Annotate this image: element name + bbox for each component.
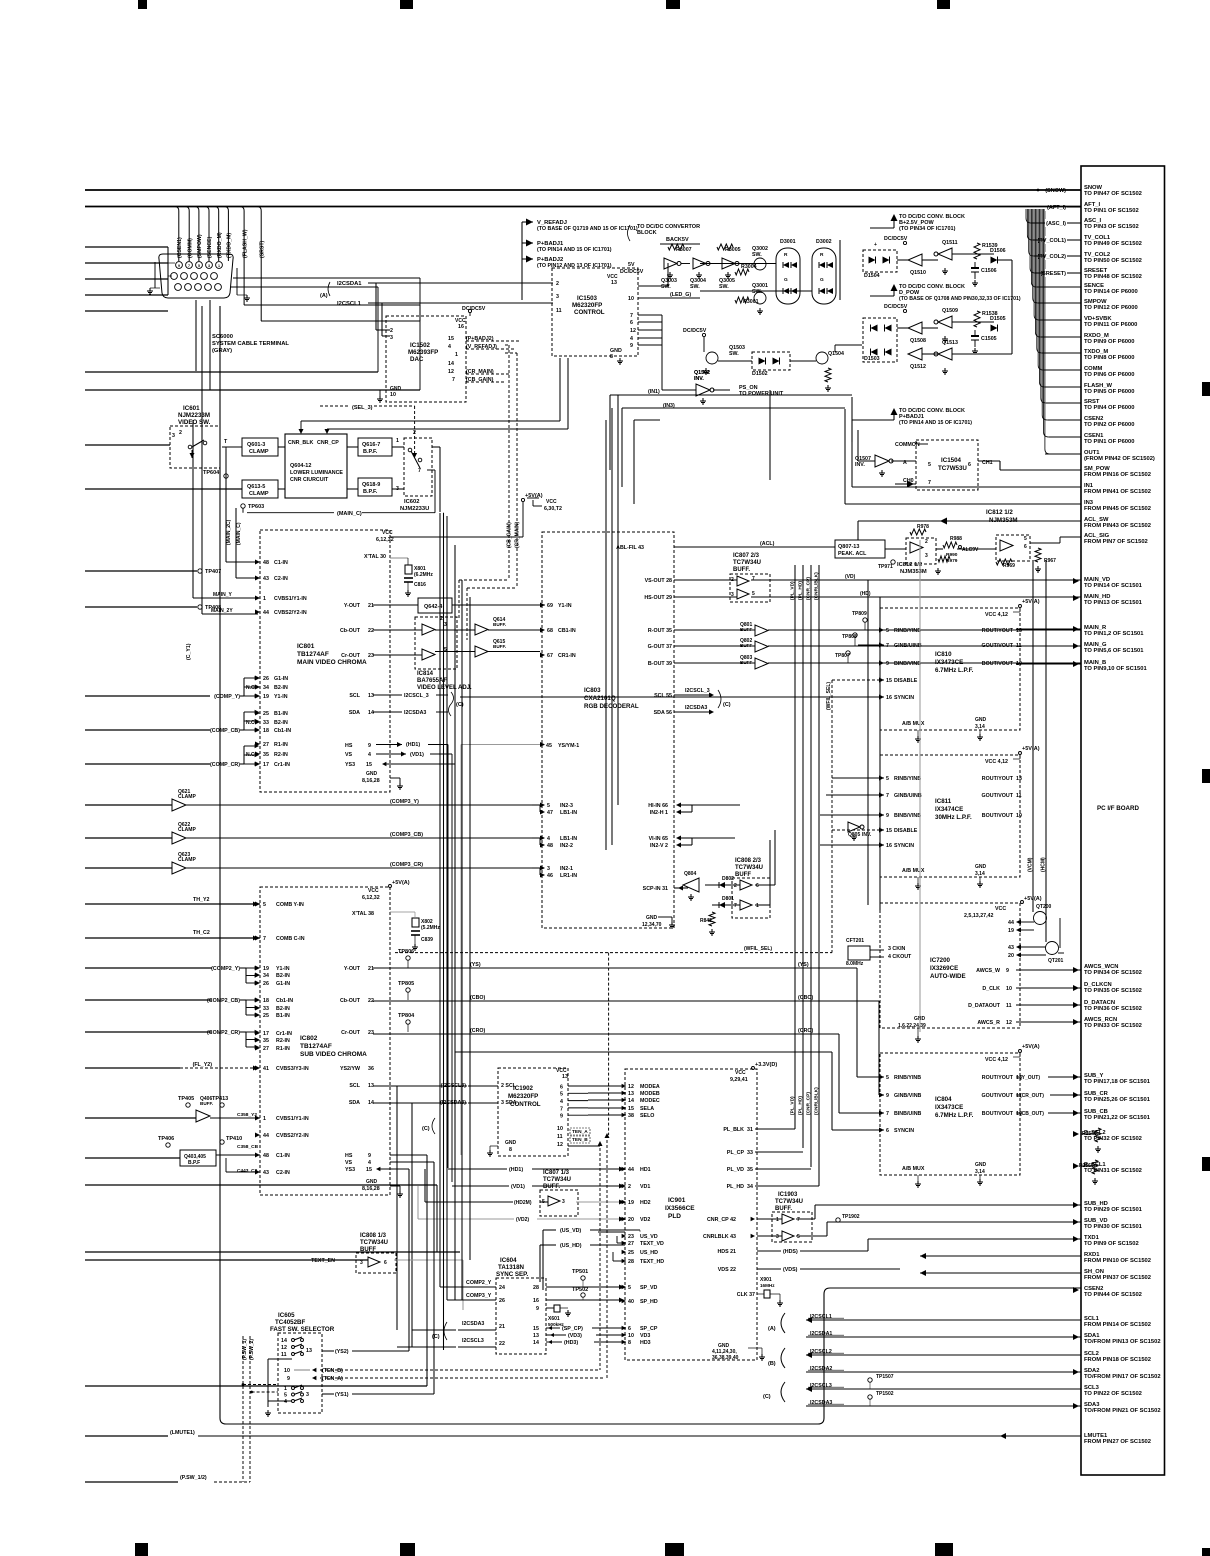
svg-text:7: 7: [418, 468, 421, 474]
svg-text:+5V(A): +5V(A): [392, 880, 410, 886]
svg-text:(US_HD): (US_HD): [560, 1243, 582, 1249]
svg-text:5: 5: [797, 1234, 800, 1240]
svg-text:IC605: IC605: [278, 1312, 295, 1319]
svg-text:HD2: HD2: [640, 1200, 651, 1206]
svg-text:TP1902: TP1902: [842, 1214, 860, 1220]
svg-text:(FL_Y2): (FL_Y2): [193, 1062, 213, 1068]
svg-text:16: 16: [886, 843, 892, 849]
svg-text:B.P.F.: B.P.F.: [363, 489, 378, 495]
svg-text:7: 7: [630, 313, 633, 319]
svg-text:3: 3: [172, 433, 175, 439]
svg-text:4 CKOUT: 4 CKOUT: [888, 954, 912, 960]
svg-text:7: 7: [752, 576, 755, 582]
svg-text:(C): (C): [422, 1126, 430, 1132]
svg-text:1: 1: [263, 1116, 266, 1122]
svg-text:5: 5: [886, 776, 889, 782]
svg-text:PL_BLK: PL_BLK: [723, 1127, 744, 1133]
svg-text:17: 17: [263, 762, 269, 768]
svg-text:I2CSDA3: I2CSDA3: [810, 1400, 832, 1406]
svg-text:SELA: SELA: [640, 1106, 654, 1112]
svg-text:(TV_COL1): (TV_COL1): [1038, 238, 1067, 244]
svg-text:IC1903: IC1903: [778, 1192, 798, 1198]
svg-text:3: 3: [562, 1199, 565, 1205]
svg-text:VCC 4,12: VCC 4,12: [985, 759, 1008, 765]
svg-text:(HD3): (HD3): [564, 1340, 578, 1346]
svg-text:HS: HS: [345, 743, 353, 749]
svg-text:PEAK. ACL: PEAK. ACL: [838, 551, 867, 557]
svg-text:R: R: [784, 252, 788, 258]
svg-text:(ACL): (ACL): [760, 541, 775, 547]
svg-text:BOUT/VOUT: BOUT/VOUT: [982, 661, 1014, 667]
svg-text:NJM2233M: NJM2233M: [178, 412, 210, 419]
svg-text:M62393FP: M62393FP: [408, 349, 438, 356]
svg-text:13: 13: [628, 1091, 634, 1097]
svg-text:Cb1-IN: Cb1-IN: [276, 998, 293, 1004]
svg-text:4: 4: [560, 1099, 563, 1105]
svg-text:IC807 1/3: IC807 1/3: [543, 1170, 570, 1176]
svg-text:Cr1-IN: Cr1-IN: [276, 1031, 292, 1037]
svg-text:TP410: TP410: [226, 1136, 242, 1142]
svg-text:VS-OUT 28: VS-OUT 28: [645, 578, 672, 584]
svg-text:AUTO-WIDE: AUTO-WIDE: [930, 973, 966, 980]
svg-text:8: 8: [610, 354, 613, 360]
svg-text:TC7W34U: TC7W34U: [735, 865, 763, 871]
svg-text:SELO: SELO: [640, 1113, 654, 1119]
svg-text:1: 1: [218, 264, 220, 268]
svg-text:TEN_A: TEN_A: [572, 1129, 588, 1135]
svg-text:CLK 37: CLK 37: [737, 1292, 755, 1298]
svg-text:GINB/UINB: GINB/UINB: [894, 793, 922, 799]
svg-text:1,6,22,24,39: 1,6,22,24,39: [898, 1023, 926, 1029]
svg-text:N.C: N.C: [246, 685, 255, 691]
svg-text:20: 20: [628, 1217, 634, 1223]
svg-text:6: 6: [628, 1326, 631, 1332]
svg-text:(5.2MHz: (5.2MHz: [421, 925, 440, 931]
svg-text:6,30,T2: 6,30,T2: [544, 506, 562, 512]
svg-text:DC/DC5V: DC/DC5V: [884, 304, 908, 310]
svg-text:FROM PIN27 OF SC1502: FROM PIN27 OF SC1502: [1084, 1439, 1151, 1445]
svg-text:LB1-IN: LB1-IN: [560, 836, 577, 842]
svg-text:15: 15: [366, 762, 372, 768]
svg-text:10: 10: [1016, 813, 1022, 819]
svg-text:(COMP2_Y): (COMP2_Y): [211, 966, 240, 972]
svg-text:33: 33: [263, 720, 269, 726]
svg-text:6.7MHz L.P.F.: 6.7MHz L.P.F.: [935, 667, 974, 674]
svg-text:(VD3): (VD3): [568, 1333, 582, 1339]
svg-text:3: 3: [547, 866, 550, 872]
svg-text:43: 43: [263, 576, 269, 582]
svg-text:C443_C2: C443_C2: [237, 1168, 258, 1174]
svg-text:21: 21: [368, 603, 374, 609]
svg-text:GND: GND: [975, 864, 987, 870]
svg-text:IC901: IC901: [668, 1197, 686, 1204]
svg-text:(VD): (VD): [845, 574, 856, 580]
svg-text:TO PIN34 OF SC1502: TO PIN34 OF SC1502: [1084, 970, 1142, 976]
svg-text:A/B MUX: A/B MUX: [902, 868, 925, 874]
svg-text:GND: GND: [975, 1162, 987, 1168]
svg-text:IC812 1/2: IC812 1/2: [897, 562, 922, 568]
svg-text:15: 15: [366, 1167, 372, 1173]
svg-text:Q1510: Q1510: [910, 270, 926, 276]
svg-text:BLOCK: BLOCK: [637, 230, 657, 236]
svg-text:C2-IN: C2-IN: [276, 1170, 290, 1176]
svg-text:IN2-V 2: IN2-V 2: [650, 843, 668, 849]
svg-text:15: 15: [448, 336, 454, 342]
svg-text:Q1509: Q1509: [942, 308, 958, 314]
svg-text:6: 6: [384, 1260, 387, 1266]
svg-text:3,14: 3,14: [975, 1169, 985, 1175]
svg-text:(COMP3_CB): (COMP3_CB): [390, 832, 423, 838]
svg-text:NJM2233U: NJM2233U: [400, 506, 429, 512]
svg-text:Q804: Q804: [684, 871, 696, 877]
svg-text:6: 6: [756, 883, 759, 889]
svg-text:4: 4: [368, 752, 371, 758]
svg-text:9: 9: [560, 1114, 563, 1120]
svg-text:TH_C2: TH_C2: [193, 930, 210, 936]
svg-text:18: 18: [263, 998, 269, 1004]
svg-text:(CRO): (CRO): [470, 1028, 486, 1034]
svg-text:(CB_GAIN): (CB_GAIN): [466, 377, 494, 383]
svg-text:I2CSCL_3: I2CSCL_3: [685, 688, 710, 694]
svg-text:21: 21: [368, 966, 374, 972]
svg-text:5V: 5V: [628, 262, 635, 268]
svg-text:9: 9: [886, 661, 889, 667]
svg-text:(A): (A): [768, 1326, 776, 1332]
svg-text:(TO PIN14 AND 15 OF IC1701): (TO PIN14 AND 15 OF IC1701): [537, 247, 612, 253]
svg-text:(COMP2_CB): (COMP2_CB): [207, 998, 240, 1004]
svg-text:TO PIN3 OF SC1502: TO PIN3 OF SC1502: [1084, 224, 1139, 230]
svg-text:D_DATAOUT: D_DATAOUT: [968, 1003, 1001, 1009]
svg-text:CVBS1/Y1-IN: CVBS1/Y1-IN: [274, 596, 307, 602]
svg-text:IN2-1: IN2-1: [560, 866, 573, 872]
svg-text:GINB/VINB: GINB/VINB: [894, 1093, 922, 1099]
svg-text:RGB DECODERAL: RGB DECODERAL: [584, 703, 639, 710]
svg-text:(GRAY): (GRAY): [212, 348, 232, 354]
svg-text:40: 40: [628, 1299, 634, 1305]
svg-text:5: 5: [547, 803, 550, 809]
svg-text:DC/DC5V: DC/DC5V: [683, 328, 707, 334]
svg-text:R: R: [820, 252, 824, 258]
svg-text:TO PIN17,18 OF SC1501: TO PIN17,18 OF SC1501: [1084, 1079, 1151, 1085]
svg-text:7: 7: [886, 1111, 889, 1117]
svg-text:Q616-7: Q616-7: [362, 442, 380, 448]
svg-text:IC807 2/3: IC807 2/3: [733, 553, 760, 559]
svg-text:BUFF.: BUFF.: [493, 644, 506, 649]
svg-text:Q604-12: Q604-12: [290, 463, 311, 469]
svg-text:R2-IN: R2-IN: [276, 1038, 290, 1044]
svg-text:CLAMP: CLAMP: [249, 491, 269, 497]
svg-text:3: 3: [556, 294, 559, 300]
svg-text:26: 26: [263, 981, 269, 987]
svg-text:TP501: TP501: [572, 1269, 588, 1275]
svg-text:25: 25: [263, 1013, 269, 1019]
svg-text:R1-IN: R1-IN: [274, 742, 288, 748]
svg-text:(LMUTE1): (LMUTE1): [170, 1430, 195, 1436]
svg-text:12,34,70: 12,34,70: [642, 922, 662, 928]
svg-text:2: 2: [734, 883, 737, 889]
svg-text:INV.: INV.: [862, 832, 872, 838]
svg-text:D1504: D1504: [864, 273, 880, 279]
svg-text:TP971: TP971: [878, 564, 893, 570]
svg-text:LR1-IN: LR1-IN: [560, 873, 577, 879]
svg-text:TO PIN12 OF P6000: TO PIN12 OF P6000: [1084, 305, 1138, 311]
svg-text:G: G: [784, 277, 788, 283]
svg-text:(LED_G): (LED_G): [670, 292, 691, 298]
svg-text:(PL_HD): (PL_HD): [798, 1096, 804, 1115]
svg-text:GND: GND: [975, 717, 987, 723]
svg-text:19: 19: [628, 1200, 634, 1206]
svg-text:12: 12: [628, 1084, 634, 1090]
svg-text:(YS): (YS): [470, 962, 481, 968]
svg-text:(COMP3_CR): (COMP3_CR): [390, 862, 423, 868]
svg-text:(CB_GAIN): (CB_GAIN): [507, 522, 513, 548]
svg-text:Q1511: Q1511: [942, 240, 958, 246]
svg-text:TO PIN44 OF SC1502: TO PIN44 OF SC1502: [1084, 1292, 1142, 1298]
svg-text:TO/FROM PIN13 OF SC1502: TO/FROM PIN13 OF SC1502: [1084, 1339, 1161, 1345]
svg-text:SUB VIDEO CHROMA: SUB VIDEO CHROMA: [300, 1051, 367, 1058]
svg-text:M62320FP: M62320FP: [508, 1093, 538, 1100]
svg-text:CVBS1/Y1-IN: CVBS1/Y1-IN: [276, 1116, 309, 1122]
svg-text:(C): (C): [456, 702, 464, 708]
svg-text:FROM PIN43 OF SC1502: FROM PIN43 OF SC1502: [1084, 523, 1151, 529]
svg-text:G: G: [820, 277, 824, 283]
svg-text:+: +: [874, 242, 877, 248]
svg-text:(C_Y1): (C_Y1): [186, 643, 192, 660]
svg-text:C1506: C1506: [981, 268, 997, 274]
svg-text:13: 13: [562, 1074, 568, 1080]
svg-text:TC7W34U: TC7W34U: [360, 1240, 388, 1246]
svg-text:(CSEN1): (CSEN1): [177, 237, 183, 258]
svg-text:19: 19: [263, 966, 269, 972]
svg-text:SYSTEM CABLE TERMINAL: SYSTEM CABLE TERMINAL: [212, 341, 289, 347]
svg-text:GOUT/VOUT: GOUT/VOUT: [982, 1093, 1014, 1099]
svg-text:14: 14: [368, 710, 374, 716]
svg-text:TP1507: TP1507: [876, 1374, 894, 1380]
svg-text:M62320FP: M62320FP: [572, 302, 602, 309]
svg-text:6: 6: [886, 1128, 889, 1134]
svg-text:Cb-OUT: Cb-OUT: [340, 628, 361, 634]
svg-text:IX3566CE: IX3566CE: [665, 1205, 695, 1212]
svg-text:(SRST): (SRST): [259, 240, 265, 258]
svg-text:RINB/YINB: RINB/YINB: [894, 628, 921, 634]
svg-text:TO PIN21,22 OF SC1501: TO PIN21,22 OF SC1501: [1084, 1115, 1151, 1121]
svg-text:17: 17: [263, 1031, 269, 1037]
svg-text:TP405: TP405: [178, 1096, 194, 1102]
svg-text:22: 22: [499, 1341, 505, 1347]
svg-text:TP407: TP407: [205, 569, 221, 575]
svg-text:9: 9: [630, 343, 633, 349]
svg-text:MAIN_2Y: MAIN_2Y: [211, 608, 233, 614]
svg-text:YS/YM-1: YS/YM-1: [558, 743, 579, 749]
svg-text:6.7MHz L.P.F.: 6.7MHz L.P.F.: [935, 1112, 974, 1119]
svg-text:4: 4: [547, 836, 550, 842]
svg-text:CONTROL: CONTROL: [574, 309, 605, 316]
svg-text:TO PIN4 OF P6000: TO PIN4 OF P6000: [1084, 405, 1134, 411]
svg-text:22: 22: [368, 628, 374, 634]
svg-text:TC7W34U: TC7W34U: [775, 1199, 803, 1205]
svg-text:28: 28: [628, 1259, 634, 1265]
svg-text:TO PIN8 OF P6000: TO PIN8 OF P6000: [1084, 355, 1134, 361]
svg-text:CLAMP: CLAMP: [178, 827, 196, 833]
svg-text:CNRLBLK 43: CNRLBLK 43: [703, 1234, 736, 1240]
svg-text:2,5,13,27,42: 2,5,13,27,42: [964, 913, 994, 919]
svg-text:13: 13: [611, 280, 617, 286]
svg-text:10: 10: [628, 296, 634, 302]
svg-text:D1505: D1505: [990, 316, 1006, 322]
svg-text:(CR_MAIN): (CR_MAIN): [466, 369, 494, 375]
svg-text:IX3473CE: IX3473CE: [935, 659, 963, 666]
svg-text:10: 10: [557, 1126, 563, 1132]
svg-text:(C): (C): [432, 1334, 440, 1340]
svg-text:TEXT_EN: TEXT_EN: [311, 1258, 335, 1264]
svg-text:(PL_VD): (PL_VD): [790, 581, 796, 600]
svg-text:TO PIN35 OF SC1502: TO PIN35 OF SC1502: [1084, 988, 1142, 994]
svg-text:20: 20: [1008, 953, 1014, 959]
svg-text:(SENCE): (SENCE): [207, 236, 213, 258]
svg-text:IC602: IC602: [404, 499, 419, 505]
svg-text:(HD1): (HD1): [509, 1167, 523, 1173]
svg-text:3 SDA: 3 SDA: [501, 1100, 517, 1106]
svg-text:TP406: TP406: [158, 1136, 174, 1142]
svg-text:CLAMP: CLAMP: [178, 857, 196, 863]
svg-text:26: 26: [499, 1298, 505, 1304]
svg-text:3,14: 3,14: [975, 871, 985, 877]
svg-text:PL_CP: PL_CP: [727, 1150, 745, 1156]
svg-text:5: 5: [263, 902, 266, 908]
svg-text:3: 3: [360, 1260, 363, 1266]
svg-text:D3002: D3002: [816, 239, 832, 245]
svg-text:G-OUT 37: G-OUT 37: [648, 644, 672, 650]
svg-text:DC/DC5V: DC/DC5V: [620, 269, 644, 275]
svg-text:INV.: INV.: [694, 376, 704, 382]
svg-text:D1502: D1502: [752, 371, 768, 377]
svg-text:D_CLK: D_CLK: [982, 986, 1000, 992]
svg-text:IC810: IC810: [935, 651, 952, 658]
svg-text:SDA: SDA: [349, 710, 360, 716]
svg-text:IC1504: IC1504: [941, 457, 962, 464]
svg-text:TO PIN9 OF P6000: TO PIN9 OF P6000: [1084, 339, 1134, 345]
svg-text:(CR_MAIN): (CR_MAIN): [515, 522, 521, 548]
svg-text:23: 23: [368, 1030, 374, 1036]
svg-text:GOUT/VOUT: GOUT/VOUT: [982, 643, 1014, 649]
svg-text:C839: C839: [421, 937, 433, 943]
svg-text:B1-IN: B1-IN: [276, 1013, 290, 1019]
svg-text:8: 8: [509, 1147, 512, 1153]
svg-text:QT200: QT200: [1036, 904, 1052, 910]
svg-text:IC803: IC803: [584, 687, 601, 694]
svg-text:DISABLE: DISABLE: [894, 828, 918, 834]
svg-text:X'TAL 30: X'TAL 30: [364, 554, 386, 560]
svg-text:TO PIN36 OF SC1502: TO PIN36 OF SC1502: [1084, 1006, 1142, 1012]
svg-text:5: 5: [628, 1285, 631, 1291]
svg-text:30MHz L.P.F.: 30MHz L.P.F.: [935, 814, 972, 821]
svg-text:TO PIN1 OF P6000: TO PIN1 OF P6000: [1084, 439, 1134, 445]
svg-text:14: 14: [448, 361, 454, 367]
svg-text:I2CSDA3: I2CSDA3: [404, 710, 426, 716]
svg-text:TO PIN49 OF SC1502: TO PIN49 OF SC1502: [1084, 241, 1142, 247]
svg-text:ROUT/YOUT: ROUT/YOUT: [982, 628, 1014, 634]
svg-text:C358_CB: C358_CB: [237, 1144, 259, 1150]
svg-text:11: 11: [557, 1134, 563, 1140]
svg-text:14: 14: [533, 1340, 539, 1346]
svg-text:FROM PIN18 OF SC1502: FROM PIN18 OF SC1502: [1084, 1357, 1151, 1363]
svg-text:43: 43: [263, 1170, 269, 1176]
svg-text:US_HD: US_HD: [640, 1250, 658, 1256]
svg-text:SP_HD: SP_HD: [640, 1299, 658, 1305]
svg-text:27: 27: [263, 1046, 269, 1052]
svg-text:(MAIN_C): (MAIN_C): [337, 511, 362, 517]
svg-text:IC801: IC801: [297, 643, 315, 650]
svg-text:BUFF.: BUFF.: [200, 1101, 213, 1106]
svg-text:Q807-13: Q807-13: [838, 544, 859, 550]
svg-text:IX3474CE: IX3474CE: [935, 806, 963, 813]
svg-text:TB1274AF: TB1274AF: [300, 1043, 332, 1050]
svg-text:US_VD: US_VD: [640, 1234, 658, 1240]
svg-text:I2CSCL1: I2CSCL1: [810, 1314, 832, 1320]
svg-text:TO PIN13 OF SC1501: TO PIN13 OF SC1501: [1084, 600, 1143, 606]
svg-text:SCL: SCL: [349, 693, 360, 699]
svg-text:7: 7: [797, 1217, 800, 1223]
svg-text:Y-OUT: Y-OUT: [344, 966, 361, 972]
svg-text:TC7W34U: TC7W34U: [543, 1177, 571, 1183]
svg-text:IC808 2/3: IC808 2/3: [735, 858, 762, 864]
svg-text:I2CSCL1: I2CSCL1: [337, 301, 362, 307]
svg-text:COMB Y-IN: COMB Y-IN: [276, 902, 304, 908]
svg-text:Cr-OUT: Cr-OUT: [341, 653, 361, 659]
svg-text:23: 23: [628, 1234, 634, 1240]
svg-text:16: 16: [458, 324, 464, 330]
svg-text:(VD1): (VD1): [410, 752, 424, 758]
svg-text:CLAMP: CLAMP: [249, 449, 269, 455]
svg-text:BUFF.: BUFF.: [775, 1206, 792, 1212]
svg-text:Cr-OUT: Cr-OUT: [341, 1030, 361, 1036]
svg-text:GND: GND: [646, 915, 658, 921]
svg-text:TEN_B: TEN_B: [572, 1137, 588, 1143]
svg-text:SDA 56: SDA 56: [654, 710, 672, 716]
svg-text:Y1-IN: Y1-IN: [558, 603, 572, 609]
svg-text:B2-IN: B2-IN: [274, 685, 288, 691]
svg-text:QT201: QT201: [1048, 958, 1064, 964]
svg-text:1: 1: [396, 438, 399, 444]
svg-text:C1-IN: C1-IN: [274, 560, 288, 566]
svg-text:IC7200: IC7200: [930, 957, 951, 964]
svg-text:R-OUT 35: R-OUT 35: [648, 628, 672, 634]
svg-text:45: 45: [546, 743, 552, 749]
svg-text:Q1513: Q1513: [942, 340, 958, 346]
svg-text:SW.: SW.: [719, 284, 729, 290]
svg-text:Q1512: Q1512: [910, 364, 926, 370]
svg-text:SCL 55: SCL 55: [654, 693, 672, 699]
svg-text:3: 3: [776, 1234, 779, 1240]
svg-text:D1506: D1506: [990, 248, 1006, 254]
svg-text:27: 27: [263, 742, 269, 748]
svg-text:TO PIN6 OF P6000: TO PIN6 OF P6000: [1084, 372, 1134, 378]
svg-text:TO PIN2 OF P6000: TO PIN2 OF P6000: [1084, 422, 1134, 428]
svg-text:TO PIN30 OF SC1501: TO PIN30 OF SC1501: [1084, 1224, 1143, 1230]
svg-text:HS: HS: [345, 1153, 353, 1159]
svg-text:+5V(A): +5V(A): [1022, 1044, 1040, 1050]
svg-text:(WFIL_SEL): (WFIL_SEL): [744, 946, 772, 952]
svg-text:TP806: TP806: [398, 949, 414, 955]
svg-text:SP_CP: SP_CP: [640, 1326, 658, 1332]
svg-text:(COMP2_CR): (COMP2_CR): [207, 1030, 240, 1036]
svg-text:VCC 4,12: VCC 4,12: [985, 1057, 1008, 1063]
svg-text:2: 2: [390, 328, 393, 334]
svg-text:3: 3: [306, 1392, 309, 1398]
svg-text:(TO BASE OF Q1708 AND PIN30,32: (TO BASE OF Q1708 AND PIN30,32,33 OF IC1…: [899, 296, 1021, 302]
svg-text:46: 46: [547, 873, 553, 879]
svg-text:DC/DC5V: DC/DC5V: [462, 306, 486, 312]
